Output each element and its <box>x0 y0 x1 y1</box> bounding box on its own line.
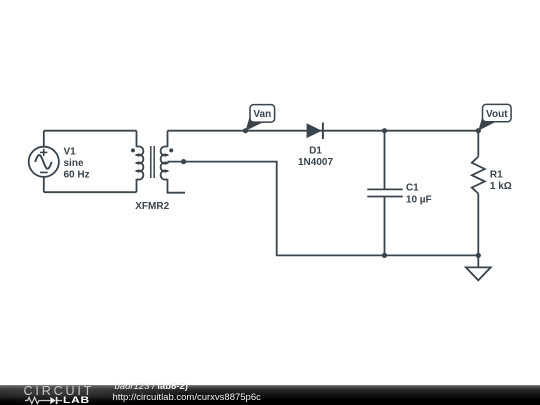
svg-text:10 µF: 10 µF <box>406 195 432 206</box>
svg-text:1 kΩ: 1 kΩ <box>490 181 512 192</box>
wire primary lead top <box>136 131 138 147</box>
wire secondary lead bottom stub <box>168 179 186 193</box>
wire C1 top lead <box>384 131 386 190</box>
node flag Vout <box>478 104 511 130</box>
node flag Van <box>246 105 275 131</box>
svg-text:R1: R1 <box>490 170 503 181</box>
voltage source V1 <box>29 147 59 177</box>
wire ground stub <box>477 255 479 266</box>
wire R1 top lead <box>477 131 479 157</box>
footer credit line <box>115 382 188 392</box>
labels <box>64 146 512 213</box>
footer url line <box>113 393 261 403</box>
CircuitLab logo wordmark <box>24 385 95 397</box>
wire center tap to bottom rail <box>168 162 479 256</box>
core <box>151 146 154 178</box>
wire primary bottom rail <box>44 191 137 193</box>
diode D1 <box>307 123 323 140</box>
polarity dot secondary <box>169 148 173 152</box>
wire R1 bottom lead <box>477 194 479 256</box>
svg-text:C1: C1 <box>406 183 419 194</box>
capacitor C1 plates <box>367 189 402 196</box>
svg-text:60 Hz: 60 Hz <box>64 170 90 181</box>
wire C1 bottom lead <box>384 197 386 256</box>
CircuitLab logo resistor/diode glyph + LAB <box>25 396 63 405</box>
wire top rail primary <box>44 130 137 132</box>
junction dot ground <box>476 253 481 258</box>
svg-text:1N4007: 1N4007 <box>298 157 333 168</box>
svg-text:sine: sine <box>64 158 84 169</box>
junction dot Vout anchor <box>476 128 481 133</box>
wire secondary top rail to Vout <box>168 130 479 132</box>
junction dot Van anchor <box>243 128 248 133</box>
wire V1 top stub <box>43 131 45 147</box>
polarity dot primary <box>131 148 135 152</box>
wire secondary lead top <box>167 131 169 147</box>
svg-text:Vout: Vout <box>486 109 508 120</box>
ground <box>466 267 491 280</box>
transformer XFMR2 <box>131 146 173 180</box>
primary coil <box>137 146 144 179</box>
svg-text:Van: Van <box>253 109 271 120</box>
svg-text:D1: D1 <box>309 146 322 157</box>
svg-text:XFMR2: XFMR2 <box>135 201 169 212</box>
junction dot tap <box>181 159 186 164</box>
wire V1 bottom stub <box>43 177 45 192</box>
secondary coil <box>161 146 168 179</box>
footer bar <box>0 385 540 405</box>
junction dot cap bottom <box>382 253 387 258</box>
svg-text:V1: V1 <box>64 147 77 158</box>
wire primary lead bottom <box>136 179 138 192</box>
resistor R1 zigzag <box>472 157 485 194</box>
junction dot cap top <box>382 128 387 133</box>
